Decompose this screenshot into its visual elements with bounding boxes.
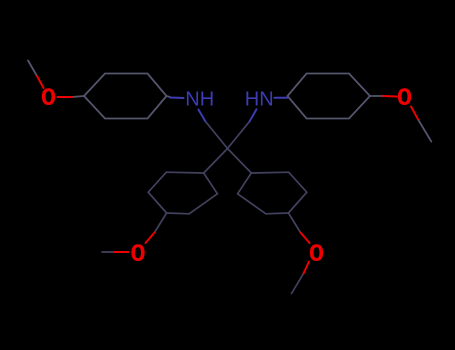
svg-text:NH: NH [185, 89, 214, 111]
svg-text:O: O [41, 84, 56, 113]
svg-text:O: O [397, 84, 412, 113]
svg-text:O: O [130, 240, 145, 269]
svg-text:O: O [309, 240, 324, 269]
svg-text:HN: HN [245, 89, 274, 111]
